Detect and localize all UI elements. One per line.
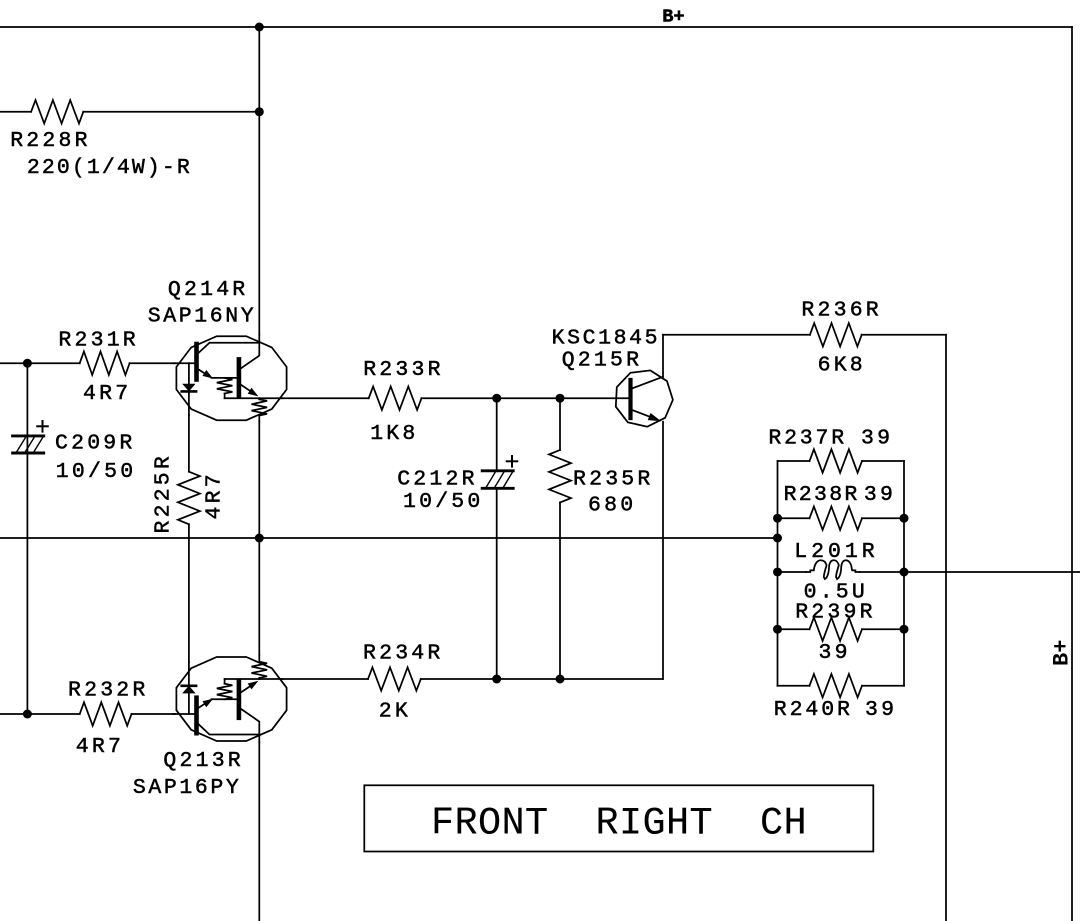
wire: Q213R emitter to R234R	[282, 678, 368, 680]
wire: main vertical from Q213R collector to bottom edge	[258, 743, 260, 921]
wire: R225R to Q213R diode (crosses output rail)	[188, 524, 190, 662]
svg-text:680: 680	[588, 494, 636, 518]
svg-text:R237R: R237R	[768, 427, 847, 451]
junction node B+ rail / main vertical	[255, 23, 264, 32]
wire: Q215R collector up	[662, 335, 664, 377]
resistor R233R	[369, 387, 422, 410]
svg-text:R239R: R239R	[795, 601, 876, 625]
svg-text:4R7: 4R7	[203, 471, 227, 519]
svg-text:R236R: R236R	[801, 299, 882, 323]
wire: R232R to Q213R base	[132, 713, 176, 715]
junction node C212R top	[492, 394, 501, 403]
wire: upper base wire from left edge	[0, 362, 80, 364]
wire: left vertical joining both base wires	[26, 363, 28, 714]
wire: R233R to Q215R base	[422, 397, 629, 399]
resistor R236R	[810, 323, 862, 346]
svg-text:B+: B+	[1050, 640, 1075, 666]
wire: Q214R diode to R225R	[188, 415, 190, 472]
resistor R235R	[549, 450, 571, 503]
svg-text:4R7: 4R7	[76, 735, 124, 759]
resistor R234R	[368, 667, 421, 690]
svg-text:Q214R: Q214R	[168, 278, 249, 302]
svg-text:C212R: C212R	[397, 468, 478, 492]
resistor R228R	[31, 100, 83, 123]
resistor R231R	[80, 352, 130, 375]
junction node C212R bottom	[492, 675, 501, 684]
wire: output to right edge	[904, 571, 1080, 573]
svg-text:R240R: R240R	[774, 698, 853, 722]
junction node L201R left	[773, 568, 782, 577]
wire: L-network left bus	[777, 461, 779, 686]
svg-text:R232R: R232R	[68, 678, 149, 702]
wire: collector rail to R236R	[663, 334, 810, 336]
junction node L201R right	[900, 568, 909, 577]
wire: C212R top connection	[496, 398, 498, 470]
transistor Q215R (KSC1845)	[616, 370, 673, 426]
transistor Q213R (SAP16PY darlington, mirrored)	[173, 655, 287, 742]
wire: R234R to Q215R emitter column	[421, 678, 663, 680]
svg-text:L201R: L201R	[794, 540, 879, 564]
junction node R231R / left vertical	[23, 359, 32, 368]
inductor L201R row	[778, 571, 807, 573]
junction node R232R / left vertical	[23, 710, 32, 719]
svg-text:B+: B+	[662, 6, 684, 28]
svg-text:SAP16PY: SAP16PY	[133, 776, 242, 800]
svg-text:R233R: R233R	[363, 358, 444, 382]
resistor R238R row	[778, 517, 810, 519]
capacitor C209R (electrolytic)	[13, 421, 48, 453]
svg-text:39: 39	[861, 427, 893, 451]
wire: R236R to right vertical	[862, 334, 946, 336]
resistor R237R row	[778, 460, 810, 462]
junction node output rail / main vertical	[255, 534, 264, 543]
svg-text:R235R: R235R	[573, 468, 654, 492]
wire: main vertical from B+ rail to Q214R collector	[258, 27, 260, 335]
wire: main vertical Q214R emitter resistor to Q213R emitter resistor (output column)	[258, 422, 260, 655]
svg-text:10/50: 10/50	[56, 460, 137, 484]
wire: B+ top rail	[0, 26, 1072, 28]
svg-text:C209R: C209R	[55, 432, 136, 456]
junction node R235R bottom	[556, 675, 565, 684]
junction node output rail / L-network left bus	[773, 534, 782, 543]
junction node R238R right	[900, 514, 909, 523]
svg-text:39: 39	[865, 698, 897, 722]
wire: mid output rail from left edge to L-network	[0, 537, 778, 539]
svg-text:KSC1845: KSC1845	[552, 327, 661, 351]
svg-text:R228R: R228R	[10, 129, 91, 153]
junction node R238R left	[773, 514, 782, 523]
svg-text:SAP16NY: SAP16NY	[148, 305, 257, 329]
junction node R235R top	[556, 394, 565, 403]
wire: right vertical from R236R to bottom edge	[945, 335, 947, 921]
wire: R228R to junction	[83, 111, 259, 113]
svg-text:FRONT RIGHT CH: FRONT RIGHT CH	[431, 802, 807, 846]
svg-text:220(1/4W)-R: 220(1/4W)-R	[27, 156, 192, 180]
svg-text:2K: 2K	[379, 700, 411, 724]
label box FRONT RIGHT CH	[364, 785, 873, 851]
wire: R228R branch from left edge to main vertical	[0, 111, 31, 113]
wire: R235R top connection	[559, 398, 561, 450]
resistor R225R	[178, 472, 200, 525]
svg-text:6K8: 6K8	[818, 354, 866, 378]
svg-text:R234R: R234R	[363, 641, 444, 665]
junction node R239R left	[773, 625, 782, 634]
capacitor C212R (electrolytic)	[482, 456, 517, 488]
resistor R232R	[80, 702, 132, 725]
svg-text:R225R: R225R	[152, 453, 176, 534]
resistor R239R row	[778, 628, 810, 630]
wire: R231R to Q214R base	[130, 362, 175, 364]
svg-text:39: 39	[864, 483, 896, 507]
wire: L-network right bus	[903, 461, 905, 686]
wire: Q215R emitter down to R234R rail	[662, 422, 664, 679]
transistor Q214R (SAP16NY darlington)	[173, 335, 287, 422]
svg-text:R231R: R231R	[58, 329, 139, 353]
svg-text:Q213R: Q213R	[163, 749, 244, 773]
resistor R240R row	[778, 685, 810, 687]
svg-text:4R7: 4R7	[83, 382, 131, 406]
wire: right border vertical (B+)	[1071, 27, 1073, 921]
svg-text:10/50: 10/50	[403, 490, 484, 514]
junction node R239R right	[900, 625, 909, 634]
wire: C212R bottom connection (crosses output rail)	[496, 489, 498, 679]
wire: Q214R emitter to R233R	[282, 397, 369, 399]
wire: R235R bottom connection (crosses output rail)	[559, 503, 561, 680]
junction node R228R / main vertical	[255, 107, 264, 116]
svg-text:Q215R: Q215R	[562, 348, 643, 372]
svg-text:1K8: 1K8	[370, 422, 418, 446]
svg-text:R238R: R238R	[784, 483, 860, 507]
wire: lower base wire from left edge	[0, 713, 80, 715]
svg-text:39: 39	[819, 641, 851, 665]
